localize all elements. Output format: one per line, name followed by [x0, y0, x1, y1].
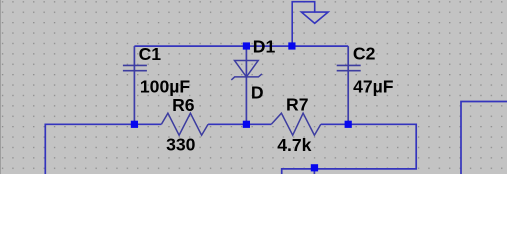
svg-text:D1: D1 [253, 37, 276, 57]
junction C2 bottom [345, 121, 352, 128]
junction ground bottom [311, 164, 318, 171]
wire C2 vertical lead [347, 46, 349, 124]
svg-text:47µF: 47µF [353, 77, 394, 97]
junction ground top [288, 42, 295, 49]
svg-text:C2: C2 [353, 44, 376, 64]
resistor R6 [161, 113, 208, 135]
wire middle right segment down to bottom [282, 124, 417, 174]
capacitor C2 [337, 65, 361, 70]
junction C1 bottom [131, 121, 138, 128]
svg-text:D: D [251, 83, 264, 103]
svg-text:R7: R7 [286, 95, 309, 115]
junction diode bottom [243, 121, 250, 128]
svg-text:R6: R6 [172, 95, 195, 115]
wire D1 vertical lead [245, 46, 247, 124]
ground symbol top [292, 2, 328, 46]
wire middle between R6 and R7 [208, 123, 271, 125]
svg-text:C1: C1 [139, 44, 162, 64]
junction diode top [243, 42, 250, 49]
left window border [0, 0, 2, 174]
svg-text:100µF: 100µF [140, 77, 190, 97]
wire ground stub bottom [313, 169, 315, 174]
svg-text:330: 330 [166, 134, 196, 154]
resistor R7 [271, 113, 321, 135]
wire partial box right [461, 102, 507, 175]
capacitor C1 [123, 65, 147, 70]
diode D1 (zener) [231, 61, 262, 80]
wire top horizontal C1 to C2 [134, 45, 348, 47]
wire middle left segment [45, 124, 161, 174]
svg-text:4.7k: 4.7k [277, 135, 311, 155]
wire C1 vertical lead [133, 46, 135, 124]
